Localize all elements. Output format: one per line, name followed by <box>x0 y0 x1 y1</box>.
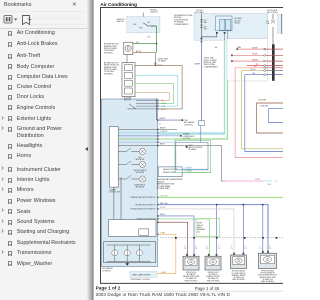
svg-text:BLOCK/POWER MODULE: BLOCK/POWER MODULE <box>258 275 277 277</box>
svg-text:LT BL: LT BL <box>161 106 165 108</box>
actuator A3 <box>233 253 235 255</box>
bookmarks panel <box>0 0 91 300</box>
recirc indicator lamp <box>118 161 131 165</box>
wire TN loop <box>135 93 169 101</box>
svg-text:RD/WH: RD/WH <box>252 54 258 56</box>
connector on DB/WH wire <box>199 121 205 126</box>
svg-text:(BELOW CENTER: (BELOW CENTER <box>188 147 202 149</box>
resistor R1 block <box>122 63 135 97</box>
svg-text:BLOWER MOTOR SWITCH: BLOWER MOTOR SWITCH <box>136 204 157 206</box>
svg-text:CONTROL: CONTROL <box>102 270 111 272</box>
svg-text:MODE DOOR: MODE DOOR <box>186 272 197 274</box>
wire RD/WH row2 <box>232 54 263 56</box>
svg-text:BK/LG: BK/LG <box>251 69 257 71</box>
wire LT BL loop <box>135 75 178 106</box>
svg-text:6: 6 <box>245 246 246 248</box>
svg-text:LT BL: LT BL <box>267 184 271 186</box>
svg-text:DB: DB <box>252 73 254 75</box>
wire DB long row <box>158 205 269 238</box>
svg-text:SWITCH: SWITCH <box>124 99 131 101</box>
svg-text:YL/LT GN: YL/LT GN <box>160 196 168 198</box>
svg-text:Page 1 of 2: Page 1 of 2 <box>96 285 121 290</box>
svg-text:RIGHT: RIGHT <box>197 223 202 225</box>
wire RD/WH row1 <box>238 48 266 50</box>
svg-text:RECIRCULATION: RECIRCULATION <box>232 270 246 273</box>
wire BK/WT row to ground <box>118 145 221 147</box>
wire LT BL from relay down and into control head <box>159 40 225 134</box>
switch S1 dashed box <box>127 17 160 33</box>
wire LT GN loop <box>135 84 174 104</box>
wire stub from switch label <box>142 13 144 23</box>
svg-text:CONTROL): CONTROL) <box>184 124 193 126</box>
lamp L2 <box>124 250 130 256</box>
svg-text:AT DASH VENT): AT DASH VENT) <box>157 187 171 190</box>
blower switch <box>127 104 136 109</box>
switch contacts <box>143 23 154 26</box>
wires down <box>187 238 189 256</box>
control head inner logic box A <box>109 220 156 237</box>
svg-text:C1: C1 <box>231 248 233 250</box>
svg-text:SWITCH: SWITCH <box>117 21 125 23</box>
svg-text:DG: DG <box>147 36 150 38</box>
lamp box B <box>104 242 156 263</box>
svg-text:F31: F31 <box>266 21 269 23</box>
svg-text:CLUTCH): CLUTCH) <box>183 138 191 140</box>
connector dashed line <box>160 237 284 239</box>
svg-text:OG/BK: OG/BK <box>160 233 166 235</box>
svg-text:BLOWER: BLOWER <box>235 18 243 20</box>
module A4 <box>262 251 264 253</box>
actuator A1 <box>186 254 188 256</box>
svg-text:(BEHIND CENTER: (BEHIND CENTER <box>206 276 220 278</box>
svg-text:BK/WH: BK/WH <box>160 128 166 130</box>
svg-text:SENSOR GROUND: SENSOR GROUND <box>163 169 178 171</box>
actuator A2 <box>208 254 210 256</box>
PDF page with wiring diagram <box>94 0 283 300</box>
wire LT BL/DB row <box>118 132 224 134</box>
sensor box <box>158 167 182 177</box>
svg-text:INSTRUMENT CLUSTER: INSTRUMENT CLUSTER <box>131 279 151 281</box>
wire LT GN from relay down <box>174 40 227 139</box>
svg-text:6: 6 <box>195 246 196 248</box>
wire WT row <box>158 209 235 238</box>
svg-text:(C2): (C2) <box>197 231 201 233</box>
svg-text:CONTROLLER: CONTROLLER <box>109 192 121 194</box>
svg-text:C1: C1 <box>260 248 262 250</box>
motor to resistor link <box>126 55 128 63</box>
footer rule <box>96 290 283 292</box>
svg-text:DB/LT GN: DB/LT GN <box>160 203 168 205</box>
svg-text:Page 1 of 45: Page 1 of 45 <box>195 286 220 291</box>
svg-text:MOTOR RESISTOR: MOTOR RESISTOR <box>260 273 275 275</box>
wire DG from switch <box>150 26 156 44</box>
svg-text:OF DASH: OF DASH <box>158 60 167 63</box>
IPM dashed box <box>194 14 268 41</box>
svg-text:C1: C1 <box>206 248 208 250</box>
svg-text:F32: F32 <box>204 26 207 28</box>
wire DB/WH down from fuse <box>201 38 203 40</box>
connector pins <box>158 100 159 101</box>
wire halo <box>159 40 225 134</box>
svg-text:OG/BK: OG/BK <box>161 272 167 274</box>
blower motor M1 <box>124 42 133 54</box>
schematic frame border <box>100 8 284 284</box>
svg-text:BK/TN: BK/TN <box>161 109 167 111</box>
ground in lamp box <box>125 263 129 265</box>
svg-text:FRONT BLOWER: FRONT BLOWER <box>261 271 275 273</box>
wire DR maroon to actuator 1 <box>158 222 188 238</box>
svg-text:(BEHIND CENTER: (BEHIND CENTER <box>232 275 246 277</box>
svg-text:C1: C1 <box>245 248 247 250</box>
svg-text:LT BL/DB: LT BL/DB <box>160 131 167 133</box>
junction squares on connector line <box>175 237 177 239</box>
svg-text:RD/WH: RD/WH <box>252 59 258 61</box>
wire LT GN to actuator 2 <box>158 219 210 238</box>
svg-text:OFF: OFF <box>133 24 136 26</box>
fan dashed box <box>227 39 268 81</box>
circuit breaker CB <box>272 14 274 45</box>
svg-text:(BEHIND RIGHT SIDE: (BEHIND RIGHT SIDE <box>259 277 275 279</box>
rear defog indicator lamp <box>118 175 131 179</box>
svg-text:WT/DG: WT/DG <box>160 207 166 209</box>
svg-text:WT/PK: WT/PK <box>255 179 261 181</box>
A/C indicator lamp <box>118 148 131 152</box>
svg-text:LT GN: LT GN <box>161 103 166 105</box>
relay pins <box>216 32 218 34</box>
svg-text:C1: C1 <box>195 248 197 250</box>
svg-text:(ACCY RUN): (ACCY RUN) <box>267 11 278 14</box>
svg-text:2: 2 <box>269 246 270 248</box>
wire from ignition switch inside head <box>156 99 158 120</box>
wire RD/WH row3 <box>232 60 263 62</box>
panel/page separator <box>87 0 94 300</box>
ground G300 <box>186 146 188 148</box>
wire DG motor feed <box>133 44 157 53</box>
wire DB ground loop <box>176 126 208 170</box>
wire BK/TN motor return <box>133 53 156 66</box>
svg-text:COMPARTMENT): COMPARTMENT) <box>204 65 219 68</box>
svg-text:BLEND DOOR: BLEND DOOR <box>208 272 219 274</box>
wire DB/PK row <box>118 141 177 143</box>
svg-text:RD/WH: RD/WH <box>252 47 258 49</box>
wire DB loop (cropped) <box>269 109 284 123</box>
wire BK/WH row <box>118 129 177 131</box>
svg-text:BK/TN: BK/TN <box>136 51 142 53</box>
wire BK/LG loop down <box>241 71 283 149</box>
connector C1 pins on vertical <box>155 63 157 65</box>
svg-text:MOTOR: MOTOR <box>235 20 242 22</box>
svg-text:F17: F17 <box>204 20 207 22</box>
wire VT/PK <box>221 146 225 182</box>
svg-text:Air Conditioning: Air Conditioning <box>100 2 137 8</box>
svg-text:DB/WH: DB/WH <box>159 118 166 120</box>
sensor wires <box>182 168 208 170</box>
svg-text:C2: C2 <box>159 123 161 125</box>
svg-text:COMPRESSOR: COMPRESSOR <box>183 136 196 138</box>
fuse F17 <box>202 14 217 37</box>
svg-text:A16: A16 <box>215 46 218 49</box>
svg-text:SWITCH: SWITCH <box>151 11 159 13</box>
control head U1 box <box>102 99 158 267</box>
lamp bus wire <box>107 245 151 263</box>
wire BR loop (cropped) <box>257 103 284 133</box>
wire RD long loop down <box>235 68 283 158</box>
svg-text:HOUSING): HOUSING) <box>104 52 113 54</box>
connector bar C1 <box>272 44 275 81</box>
wire BK/TN outer loop <box>135 66 182 109</box>
wire DB to actuator 1 <box>158 216 195 238</box>
svg-text:DB BL/WH: DB BL/WH <box>258 100 267 102</box>
wire DB/WH out to A/C heater control note <box>158 119 183 121</box>
svg-text:BK/WT: BK/WT <box>160 144 165 146</box>
wire halo <box>158 196 284 198</box>
svg-text:T/JB: T/JB <box>184 120 187 122</box>
lamp L3 <box>137 250 143 256</box>
svg-text:LT BL/WT: LT BL/WT <box>185 168 192 170</box>
wire LT GN ground loop <box>174 141 211 173</box>
svg-text:C1: C1 <box>269 248 271 250</box>
junction block dashed (cropped right) <box>278 14 287 34</box>
wire OG/BK panel lamps <box>157 234 175 273</box>
wire LT GN/DG row <box>118 138 174 140</box>
svg-text:G300: G300 <box>188 145 192 147</box>
svg-text:DB/WH: DB/WH <box>194 63 201 65</box>
svg-text:BLOWER: BLOWER <box>124 97 132 99</box>
green loop around label <box>196 219 220 237</box>
svg-text:1: 1 <box>260 246 261 248</box>
svg-text:C1: C1 <box>184 248 186 250</box>
svg-text:8: 8 <box>218 246 219 248</box>
svg-text:4: 4 <box>184 246 185 248</box>
svg-text:DB BL/WH: DB BL/WH <box>260 105 269 107</box>
svg-text:2: 2 <box>206 246 207 248</box>
wire YL/LT GN long row <box>158 196 284 198</box>
svg-text:HOUSING): HOUSING) <box>104 73 113 75</box>
climate controller inner box <box>110 127 119 188</box>
svg-text:DB/OG: DB/OG <box>160 214 166 216</box>
lamp L1 <box>112 250 118 256</box>
svg-text:2003 Dodge or Ram Truck RAM 15: 2003 Dodge or Ram Truck RAM 1500 Truck 2… <box>96 292 231 297</box>
svg-text:C1: C1 <box>218 248 220 250</box>
blower switch rows from loops <box>136 100 158 109</box>
svg-text:SIDE OF: SIDE OF <box>197 225 203 227</box>
svg-text:COMPARTMENT): COMPARTMENT) <box>174 23 189 26</box>
svg-text:(BEHIND RIGHT SIDE: (BEHIND RIGHT SIDE <box>183 276 199 278</box>
svg-text:4: 4 <box>231 246 232 248</box>
wire RD row4 <box>247 65 264 67</box>
instrument cluster dashed box <box>130 271 157 277</box>
wire DB/OG row with destination <box>118 135 181 137</box>
blower motor relay K1 <box>216 16 233 31</box>
wire DB down to actuator <box>245 75 284 152</box>
